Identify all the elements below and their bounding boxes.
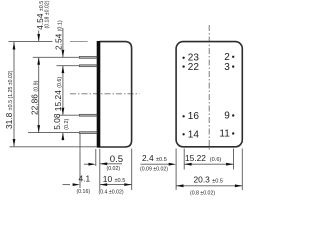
side view case body — [100, 42, 132, 147]
extension line pin col2 — [233, 149, 235, 170]
pin 2 — [232, 56, 234, 58]
svg-text:14: 14 — [188, 130, 200, 141]
svg-text:(0.8 ±0.02): (0.8 ±0.02) — [190, 190, 215, 196]
svg-text:5.08: 5.08 — [52, 113, 62, 130]
dim 20.3 line — [176, 185, 242, 187]
svg-text:11: 11 — [219, 129, 230, 140]
pin 22 — [182, 65, 184, 67]
svg-text:(0.09 ±0.02): (0.09 ±0.02) — [140, 167, 168, 173]
extension line body right — [241, 149, 243, 191]
extension line pin row4 — [28, 132, 79, 134]
dim 15.24 arrows (pin2 to pin3) — [62, 66, 65, 73]
extension line body top — [9, 40, 53, 42]
dim 4.54 (body top to pin1) — [38, 31, 40, 42]
pin 11 — [232, 132, 234, 134]
pin 23 — [182, 57, 184, 59]
extension line pin row3 — [59, 114, 79, 116]
svg-text:22: 22 — [188, 62, 200, 73]
pin 16 — [182, 115, 184, 117]
svg-text:9: 9 — [224, 111, 230, 122]
dim 31.8 line — [13, 42, 15, 146]
dim 0.5 extension lines (plate) — [95, 149, 97, 166]
bottom plate (black bar) — [97, 41, 101, 148]
svg-text:4.1: 4.1 — [79, 173, 91, 183]
svg-text:(0.16): (0.16) — [77, 189, 91, 195]
centerline (horizontal, side view) — [70, 93, 140, 95]
extension line case right — [131, 149, 133, 191]
extension line body bottom — [10, 146, 97, 148]
pin row3 (side) — [79, 114, 97, 116]
pin row1 (side) — [79, 56, 97, 58]
svg-text:(0.4 ±0.02): (0.4 ±0.02) — [99, 190, 124, 196]
svg-text:16: 16 — [188, 111, 200, 122]
dim 15.22 line — [184, 163, 233, 165]
svg-text:3: 3 — [224, 62, 230, 73]
svg-text:(0.2): (0.2) — [64, 119, 70, 130]
centerline (vertical, bottom view) — [208, 25, 210, 151]
dim 0.5 leader and arrow — [100, 163, 122, 165]
dim 0.5 left arrow — [84, 163, 90, 165]
pin 9 — [232, 114, 234, 116]
dim 5.08 arrows (pin3 to pin4) — [62, 133, 65, 140]
pin 3 — [232, 65, 234, 67]
dim 2.4 line — [141, 163, 170, 165]
svg-text:0.5: 0.5 — [110, 154, 123, 165]
dim 10 line (case height) — [100, 184, 132, 186]
svg-text:(0.02): (0.02) — [107, 166, 121, 172]
extension line body left — [175, 149, 177, 191]
extension line pin row1 — [33, 56, 80, 58]
dim 22.86 line (pin1 to pin4) — [38, 57, 40, 132]
dim 4.1 extension line (pin tips) — [79, 134, 81, 188]
pin row4 (side) — [79, 132, 97, 134]
extension line pin row2 — [57, 65, 80, 67]
dim 2.54 upper arrow (pin1) — [62, 28, 64, 141]
bottom view body — [176, 42, 242, 147]
dim 4.1 arrow — [63, 184, 71, 186]
pin 14 — [182, 133, 184, 135]
pin row2 (side) — [79, 65, 97, 67]
extension line pin col1 — [183, 149, 185, 170]
svg-text:(0.18 ±0.02): (0.18 ±0.02) — [45, 0, 51, 28]
